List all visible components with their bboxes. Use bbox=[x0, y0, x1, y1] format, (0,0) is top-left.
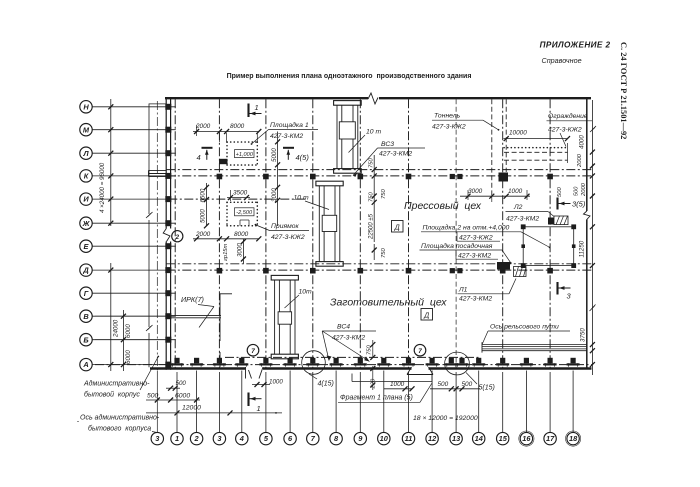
svg-text:427-3-КМ2: 427-3-КМ2 bbox=[458, 252, 491, 259]
column left wall / axis В bbox=[165, 313, 171, 319]
bridge crane bay Н-К bbox=[334, 101, 362, 106]
axis К dash-dot line across plan bbox=[166, 175, 592, 177]
svg-text:6500: 6500 bbox=[200, 188, 207, 202]
svg-text:16: 16 bbox=[522, 434, 531, 443]
svg-text:18: 18 bbox=[569, 434, 578, 443]
svg-text:2000: 2000 bbox=[581, 182, 587, 197]
column left wall / axis М bbox=[165, 127, 171, 133]
svg-text:1: 1 bbox=[175, 434, 179, 443]
svg-text:Л2: Л2 bbox=[513, 204, 523, 211]
axis 2 extension line bbox=[196, 371, 198, 433]
svg-text:-2,500: -2,500 bbox=[236, 210, 253, 216]
bottom wall bbox=[150, 367, 592, 370]
svg-text:2: 2 bbox=[175, 234, 180, 241]
vertical dim line 4x24000 bbox=[110, 99, 112, 226]
leader ВС4 b bbox=[322, 331, 369, 362]
column axis 9/К bbox=[358, 174, 364, 180]
svg-text:Фрагмент 1 плана (5): Фрагмент 1 плана (5) bbox=[340, 395, 413, 402]
svg-text:3: 3 bbox=[567, 292, 572, 301]
svg-text:К: К bbox=[84, 172, 89, 181]
column axis 7/Д bbox=[310, 268, 316, 274]
column left wall / axis Д bbox=[165, 267, 171, 273]
bottom wall column axis 18 bbox=[567, 363, 580, 365]
svg-text:Д: Д bbox=[423, 313, 429, 320]
pit dimension line bbox=[193, 238, 259, 240]
axis circle 18 extra ring bbox=[566, 431, 581, 446]
platform 1 dotted outline bbox=[227, 141, 257, 143]
bottom wall column axis 9 bbox=[354, 363, 367, 365]
axis line Л to wall bbox=[92, 152, 176, 154]
crane rail line above axis К bbox=[166, 169, 592, 171]
left dim horizontal extension Б bbox=[95, 339, 170, 341]
axis 7 dash-dot line bbox=[312, 99, 314, 367]
axis circle А bbox=[80, 358, 92, 370]
svg-text:427-3-КЖ2: 427-3-КЖ2 bbox=[548, 127, 582, 134]
leader admin building bbox=[140, 357, 158, 390]
axis circle Г bbox=[80, 287, 92, 299]
crane rails bottom bbox=[482, 344, 587, 346]
column left wall / axis Ж bbox=[165, 220, 171, 226]
svg-text:гр15т: гр15т bbox=[223, 243, 229, 261]
svg-text:500: 500 bbox=[574, 186, 580, 196]
axis line Н to wall bbox=[92, 106, 176, 108]
paired columns expansion joint at 13/Д bbox=[450, 268, 455, 273]
svg-text:5000: 5000 bbox=[271, 148, 278, 162]
gate dimension 1000 axes 4-5 bbox=[252, 384, 270, 386]
svg-text:1: 1 bbox=[257, 404, 261, 413]
svg-text:В: В bbox=[83, 312, 89, 321]
axis circle И bbox=[80, 193, 92, 205]
svg-text:8000: 8000 bbox=[234, 231, 249, 238]
svg-text:2: 2 bbox=[194, 434, 200, 443]
svg-text:1000: 1000 bbox=[508, 188, 523, 195]
svg-text:4 ×24000 = 96000: 4 ×24000 = 96000 bbox=[99, 162, 106, 213]
svg-text:+1,000: +1,000 bbox=[236, 152, 254, 158]
svg-text:427-3-КМ2: 427-3-КМ2 bbox=[270, 133, 303, 140]
axis circle Н bbox=[80, 101, 92, 113]
axis circle В bbox=[80, 310, 92, 322]
axis line Г to wall bbox=[92, 292, 176, 294]
leader площадка 2 bbox=[521, 232, 549, 247]
svg-text:7: 7 bbox=[311, 434, 316, 443]
axis line Д to wall bbox=[92, 269, 176, 271]
svg-text:6000: 6000 bbox=[125, 324, 132, 338]
right chain line bbox=[591, 100, 593, 375]
column axis 17/Д bbox=[547, 268, 553, 274]
column left wall / axis А bbox=[165, 362, 171, 368]
svg-text:11250: 11250 bbox=[579, 240, 586, 257]
platform 2 rectangle bbox=[523, 227, 574, 266]
svg-text:4(5): 4(5) bbox=[296, 153, 310, 162]
svg-text:4: 4 bbox=[197, 153, 201, 162]
bottom wall column axis 14 bbox=[472, 363, 485, 365]
vertical dimension line x206 bbox=[206, 183, 208, 226]
leader посадочная bbox=[502, 250, 511, 263]
bridge crane bay Д-А bbox=[271, 275, 298, 280]
column axis 3/К bbox=[217, 174, 223, 180]
platform 1 stair hatch bbox=[219, 159, 228, 164]
bottom wall column axis 17 bbox=[544, 363, 557, 365]
axis 8 extension line bbox=[335, 371, 337, 433]
svg-text:3000: 3000 bbox=[468, 188, 483, 195]
svg-text:3000: 3000 bbox=[237, 243, 244, 257]
column axis 5/К bbox=[263, 174, 269, 180]
axis 17 dash-dot line bbox=[549, 99, 551, 367]
svg-text:И: И bbox=[83, 195, 89, 204]
svg-text:Л: Л bbox=[82, 149, 89, 158]
svg-text:427-3-КЖ2: 427-3-КЖ2 bbox=[459, 234, 493, 241]
svg-text:15: 15 bbox=[499, 434, 508, 443]
right wall bbox=[586, 97, 588, 369]
svg-text:Д: Д bbox=[394, 225, 400, 232]
axis И dash-dot line bbox=[168, 198, 308, 200]
axis circle Е bbox=[80, 240, 92, 252]
left dim horizontal extension В bbox=[95, 315, 170, 317]
axis 3 dash-dot line bbox=[218, 99, 220, 367]
svg-text:500: 500 bbox=[438, 381, 449, 388]
svg-text:750: 750 bbox=[368, 158, 374, 168]
svg-text:Н: Н bbox=[83, 102, 89, 111]
axis circle 13 bbox=[450, 432, 462, 444]
bottom wall column axis 16 bbox=[520, 363, 533, 365]
svg-text:3750: 3750 bbox=[580, 328, 587, 342]
axis 4 extension line bbox=[241, 371, 243, 433]
svg-text:5000: 5000 bbox=[200, 209, 207, 223]
svg-text:3: 3 bbox=[217, 434, 222, 443]
svg-text:М: М bbox=[83, 125, 90, 134]
leader ось корпуса bbox=[152, 432, 157, 433]
axis circle Б bbox=[80, 334, 92, 346]
svg-text:10000: 10000 bbox=[509, 130, 527, 137]
svg-text:Площадка посадочная: Площадка посадочная bbox=[421, 242, 493, 250]
axis circle 3 bbox=[213, 432, 225, 444]
svg-text:8000: 8000 bbox=[230, 123, 245, 130]
svg-text:10т: 10т bbox=[299, 289, 313, 296]
svg-text:13: 13 bbox=[452, 434, 461, 443]
admin building edge break 1 bbox=[146, 212, 153, 218]
axis circle М bbox=[80, 124, 92, 136]
svg-text:А: А bbox=[82, 360, 88, 369]
svg-text:10: 10 bbox=[380, 434, 389, 443]
axis 18 extension line bbox=[572, 371, 574, 433]
leader Площадка 1 bbox=[252, 130, 269, 144]
svg-text:ПРИЛОЖЕНИЕ 2: ПРИЛОЖЕНИЕ 2 bbox=[540, 41, 611, 50]
right chain break top bbox=[590, 126, 596, 132]
axis circle 2 bbox=[190, 432, 202, 444]
axis 15 dash-dot line bbox=[502, 99, 504, 367]
bottom wall paired columns axis 13 bbox=[445, 363, 458, 365]
svg-text:Б: Б bbox=[83, 335, 88, 344]
bottom wall column axis 11 bbox=[402, 363, 415, 365]
bottom wall column axis 12 bbox=[426, 363, 439, 365]
axis А dash-dot line across plan bbox=[95, 364, 592, 366]
svg-text:Г: Г bbox=[84, 289, 89, 298]
gate opening axes 4-5 bbox=[246, 367, 264, 370]
detail circle at axis 13 columns bbox=[445, 352, 470, 375]
svg-text:427-3-КМ2: 427-3-КМ2 bbox=[506, 216, 539, 223]
axis 9 dash-dot line bbox=[359, 99, 361, 367]
svg-text:Приямок: Приямок bbox=[271, 223, 300, 230]
svg-text:Прессовый цех: Прессовый цех bbox=[404, 200, 482, 212]
extension lines И right bbox=[467, 190, 469, 200]
svg-text:4: 4 bbox=[239, 434, 244, 443]
svg-text:6000: 6000 bbox=[125, 350, 132, 364]
svg-text:ИРК(7): ИРК(7) bbox=[181, 295, 204, 304]
right wall break symbol bbox=[583, 211, 591, 220]
axis line В to wall bbox=[92, 315, 176, 317]
svg-text:1000: 1000 bbox=[269, 379, 283, 386]
paired columns expansion joint at 13/К bbox=[450, 174, 455, 179]
axis 17 extension line bbox=[549, 372, 551, 432]
axis line Б to wall bbox=[92, 339, 176, 341]
axis 1 extension line bbox=[176, 372, 178, 432]
svg-text:750: 750 bbox=[381, 189, 387, 199]
bottom wall column axis 5 bbox=[259, 363, 272, 365]
top wall break symbol bbox=[368, 94, 379, 103]
boxed mark Д lower bbox=[421, 309, 433, 321]
axis 9 extension line bbox=[359, 372, 361, 432]
svg-text:427-3-КМ2: 427-3-КМ2 bbox=[459, 296, 492, 303]
bottom wall column axis 6 bbox=[284, 363, 297, 365]
svg-text:14: 14 bbox=[475, 434, 483, 443]
svg-text:9: 9 bbox=[358, 434, 363, 443]
svg-text:3500: 3500 bbox=[233, 190, 248, 197]
column axis 15/К bbox=[500, 174, 506, 180]
svg-text:ВС4: ВС4 bbox=[337, 324, 350, 331]
circled mark 7 right bbox=[414, 344, 426, 356]
svg-text:1: 1 bbox=[255, 103, 259, 112]
svg-text:Площадка 2 на отм.+4,000: Площадка 2 на отм.+4,000 bbox=[423, 224, 510, 232]
admin building top edge bbox=[149, 103, 166, 105]
axis line И to wall bbox=[92, 198, 176, 200]
admin axis 3 dash line bbox=[156, 101, 158, 371]
axis circle 5 bbox=[260, 432, 272, 444]
crane rail line above axis Д bbox=[166, 263, 592, 265]
column left wall / axis Б bbox=[165, 337, 171, 343]
detail circle at axis 7 column bbox=[302, 351, 326, 375]
svg-text:7: 7 bbox=[418, 348, 422, 355]
svg-text:5: 5 bbox=[264, 434, 269, 443]
leader ВС3 bbox=[353, 148, 378, 176]
left wall break at axis 2 mark bbox=[164, 229, 173, 242]
admin axis 3 extension line bbox=[156, 371, 158, 432]
section mark 3(5) bbox=[556, 198, 558, 210]
svg-text:427-3-КЖ2: 427-3-КЖ2 bbox=[271, 234, 305, 241]
column axis 3/Д bbox=[217, 268, 223, 274]
section mark 3 bbox=[556, 282, 558, 295]
vertical dim line 24000 bbox=[110, 263, 112, 371]
vertical dim line 6000s bbox=[122, 310, 124, 371]
axis circle 11 bbox=[402, 432, 414, 444]
svg-text:Тоннель: Тоннель bbox=[434, 113, 461, 120]
svg-text:1000: 1000 bbox=[390, 381, 405, 388]
svg-text:бытовой корпус: бытовой корпус bbox=[84, 391, 140, 399]
column axis 17/К bbox=[547, 174, 553, 180]
svg-text:24000: 24000 bbox=[113, 319, 120, 338]
right chain ticks bbox=[590, 150, 595, 155]
axis circle Ж bbox=[80, 217, 92, 229]
axis circle 12 bbox=[426, 432, 438, 444]
extension axis2 top bbox=[196, 125, 198, 136]
svg-text:Пример выполнения плана одноэт: Пример выполнения плана одноэтажного про… bbox=[227, 73, 472, 80]
svg-text:Административно-: Административно- bbox=[83, 380, 150, 388]
bottom wall column axis 1 bbox=[171, 363, 184, 365]
fence dotted line bbox=[504, 147, 568, 149]
dimension line И right bbox=[460, 195, 530, 197]
ИРК room upper wall at Г bbox=[220, 293, 232, 295]
axis 6 extension line bbox=[289, 371, 291, 433]
axis circle 7 bbox=[307, 432, 319, 444]
vertical dim line rails upper bbox=[373, 155, 375, 242]
svg-text:Ось административно-: Ось административно- bbox=[80, 414, 160, 422]
axis circle 17 bbox=[544, 432, 556, 444]
axis circle 15 bbox=[497, 432, 509, 444]
platform 2 corner columns bbox=[521, 224, 526, 229]
fragment outline lines bbox=[351, 374, 353, 382]
svg-text:500: 500 bbox=[557, 187, 563, 197]
section mark 4(5) arrow bbox=[283, 147, 294, 149]
column axis 9/Д bbox=[358, 268, 364, 274]
svg-text:2000: 2000 bbox=[195, 123, 211, 130]
axis circle 16 bbox=[520, 432, 532, 444]
bottom wall column axis 8 bbox=[330, 363, 343, 365]
axis Д dash-dot line across plan bbox=[166, 269, 592, 271]
svg-text:Ось рельсового пути: Ось рельсового пути bbox=[490, 324, 559, 331]
svg-text:Л1: Л1 bbox=[458, 287, 468, 294]
axis 11 dash-dot line bbox=[408, 99, 410, 367]
axis 5 dash-dot line bbox=[265, 99, 267, 367]
svg-text:Заготовительный цех: Заготовительный цех bbox=[330, 297, 447, 309]
svg-text:4000: 4000 bbox=[579, 135, 586, 149]
rail axis line with circles 7 bbox=[225, 356, 480, 358]
svg-text:750: 750 bbox=[368, 192, 374, 202]
axis line Е to wall bbox=[92, 245, 176, 247]
circled mark 2 bbox=[172, 231, 183, 242]
axis 13 dash-dot line bbox=[455, 99, 457, 367]
bottom wall column axis 3 bbox=[213, 363, 226, 365]
axis circle 4 bbox=[236, 432, 248, 444]
platform landing hatch Л1 bbox=[497, 262, 510, 270]
svg-text:12: 12 bbox=[428, 434, 437, 443]
canopy at admin entrance bbox=[149, 169, 167, 171]
column left wall / axis Г bbox=[165, 290, 171, 296]
axis 7 extension line bbox=[312, 372, 314, 432]
column axis 7/К bbox=[310, 174, 316, 180]
svg-text:500: 500 bbox=[147, 393, 159, 400]
svg-text:11: 11 bbox=[405, 434, 413, 443]
axis circle 14 bbox=[473, 432, 485, 444]
svg-text:3: 3 bbox=[155, 434, 160, 443]
svg-text:750: 750 bbox=[381, 248, 387, 258]
ИРК room top wall bbox=[171, 315, 221, 317]
vertical dimension 3000 below pit bbox=[242, 239, 244, 264]
tunnel dashed wall left bbox=[491, 99, 493, 196]
svg-text:427-3-КМ2: 427-3-КМ2 bbox=[379, 151, 412, 158]
bottom wall column axis 10 bbox=[377, 363, 390, 365]
axis 1 dash-dot line bbox=[174, 99, 176, 367]
column axis 5/Д bbox=[263, 268, 269, 274]
admin axis circle 3 bbox=[151, 432, 163, 444]
axis 12 extension line bbox=[431, 371, 433, 433]
axis 14 extension line bbox=[478, 371, 480, 433]
svg-text:7: 7 bbox=[251, 348, 255, 355]
svg-text:8: 8 bbox=[334, 434, 339, 443]
vertical dimension line x277 bbox=[277, 132, 279, 227]
svg-text:4(15): 4(15) bbox=[318, 381, 334, 388]
svg-text:5(15): 5(15) bbox=[479, 385, 495, 392]
top wall bbox=[165, 97, 591, 99]
svg-text:427-3-КЖ2: 427-3-КЖ2 bbox=[432, 124, 466, 131]
axis 10 extension line bbox=[383, 371, 385, 433]
section mark 1 top bbox=[247, 104, 249, 118]
gate opening axes 11-12 bbox=[412, 367, 429, 370]
admin building left edge line bbox=[148, 104, 150, 215]
section mark 1 bottom bbox=[247, 393, 249, 407]
dimension line 500/6000 bbox=[146, 399, 200, 401]
leader Приямок bbox=[256, 225, 270, 231]
axis circle 16 extra ring bbox=[519, 431, 534, 446]
svg-text:ВС3: ВС3 bbox=[381, 141, 394, 148]
axis 13 extension line bbox=[455, 372, 457, 432]
svg-text:6: 6 bbox=[288, 434, 293, 443]
column axis 11/К bbox=[406, 174, 412, 180]
leader tunnel bbox=[483, 120, 498, 129]
section mark 4 arrow bbox=[202, 147, 213, 149]
svg-text:22500 ±5: 22500 ±5 bbox=[369, 213, 375, 240]
ИРК room right wall bbox=[219, 294, 221, 341]
svg-text:3000: 3000 bbox=[271, 188, 278, 202]
axis 11 extension line bbox=[408, 372, 410, 432]
axis circle 18 bbox=[567, 432, 579, 444]
leader fence bbox=[560, 133, 566, 147]
bottom wall column axis 2 bbox=[190, 363, 203, 365]
axis line Ж to wall bbox=[92, 222, 176, 224]
svg-text:12000: 12000 bbox=[182, 405, 201, 412]
svg-text:10 т: 10 т bbox=[294, 195, 309, 202]
leader ВС4 a bbox=[322, 331, 329, 361]
svg-text:Справочное: Справочное bbox=[542, 56, 582, 65]
circled mark 7 left bbox=[247, 344, 259, 356]
axis 16 extension line bbox=[525, 371, 527, 433]
column left wall / axis Н bbox=[165, 104, 171, 110]
svg-text:3(5): 3(5) bbox=[572, 200, 586, 209]
svg-text:Ж: Ж bbox=[82, 219, 91, 228]
svg-text:6000: 6000 bbox=[175, 393, 190, 400]
fence dashed line 2 bbox=[504, 151, 568, 153]
admin building edge break 2 bbox=[146, 325, 153, 331]
column left wall / axis И bbox=[165, 196, 171, 202]
axis line А to wall bbox=[92, 364, 176, 366]
column axis 11/Д bbox=[406, 268, 412, 274]
svg-text:10 т: 10 т bbox=[366, 129, 381, 136]
ladder Л2 hatched bbox=[554, 216, 568, 225]
svg-text:Е: Е bbox=[84, 242, 90, 251]
bottom wall column axis 4 bbox=[235, 363, 248, 365]
svg-text:Площадка 1: Площадка 1 bbox=[270, 121, 309, 129]
axis 5 extension line bbox=[265, 372, 267, 432]
leader Л1 bbox=[509, 279, 516, 294]
vertical dim line rails lower bbox=[373, 244, 375, 260]
axis circle 1 bbox=[171, 432, 183, 444]
svg-text:бытового корпуса: бытового корпуса bbox=[88, 425, 151, 433]
axis circle Д bbox=[80, 264, 92, 276]
axis line К to wall bbox=[92, 175, 176, 177]
axis circle 6 bbox=[284, 432, 296, 444]
fence end vertical bbox=[567, 143, 569, 163]
platform 1 extension lines bbox=[218, 133, 220, 142]
axis circle К bbox=[80, 170, 92, 182]
dimension line 12000 bbox=[146, 412, 282, 414]
